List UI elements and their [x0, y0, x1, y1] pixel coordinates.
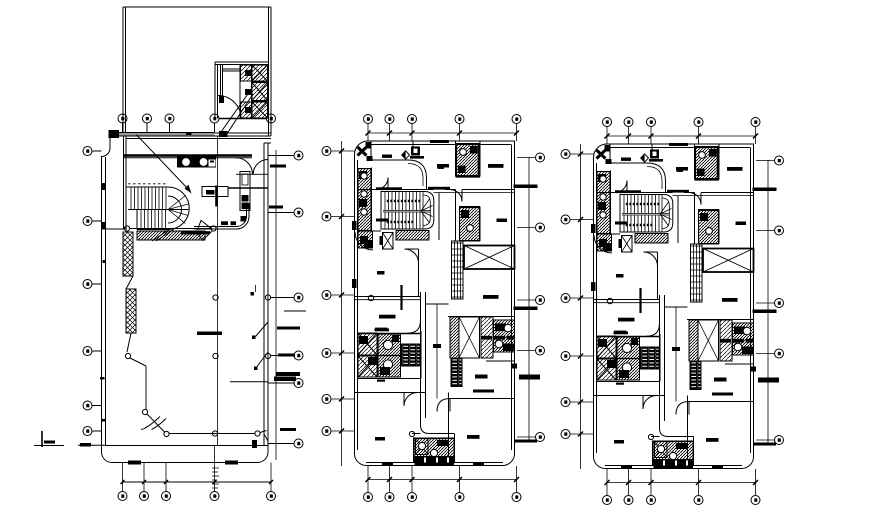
stair lower flight left wall [136, 210, 138, 230]
window band jog [126, 276, 133, 289]
upper extension right wall [269, 7, 272, 136]
entrance line left [78, 444, 106, 446]
site benchmark dash [44, 441, 55, 444]
wire drop diagonal [130, 358, 146, 366]
grid bubble T2 [143, 114, 152, 133]
grid bubble B1 [118, 492, 127, 501]
duct lower fill [241, 216, 247, 222]
right stem R5 [268, 382, 294, 384]
grid bubble L4 [83, 347, 102, 356]
right stem R2 [268, 212, 294, 214]
dim extension right mid [284, 310, 306, 312]
bottom stem B1 [122, 463, 124, 492]
heavy tick R row2 [269, 206, 283, 209]
door swing arc DA2 [253, 160, 268, 175]
switch symbol [141, 417, 166, 430]
right wall junction circle [265, 295, 270, 300]
socket leader 2 [257, 352, 268, 367]
shaft lobby hatch lower [241, 102, 252, 118]
wire run bottom [169, 433, 255, 435]
door swing arc DA1 [236, 158, 253, 175]
grid bubble L1 [83, 147, 102, 156]
main outer boundary [102, 136, 269, 463]
junction circle W3 [125, 353, 130, 358]
grid bubble B5 [267, 492, 276, 501]
stair inner cap arc [168, 196, 182, 223]
middle plan (first floor) [322, 115, 545, 502]
top wall double line right part [215, 133, 272, 136]
elevator shaft divider wall [240, 65, 268, 119]
duct fill 2 [242, 203, 249, 210]
kitchen sink bowl 2 [200, 159, 207, 166]
feeder leader line [137, 135, 190, 191]
door sill line [236, 173, 268, 175]
junction circle W1 [124, 226, 129, 231]
site benchmark line [34, 445, 64, 447]
kitchen hob white box [209, 160, 216, 167]
grid bubble T4 [210, 114, 219, 132]
kitchen wall lower line [124, 157, 252, 159]
distribution board fill [206, 190, 215, 195]
elevator door panel D1 [245, 70, 252, 76]
heavy tick right lower [274, 377, 296, 382]
duct fill 1 [242, 195, 249, 202]
corridor socket a [221, 221, 228, 225]
stair dashed soffit line [128, 183, 166, 185]
kitchen sink bowl 1 [183, 159, 190, 166]
riser bar [215, 186, 218, 207]
wire diagonal to W5 [147, 414, 165, 432]
left corridor wall stub [102, 228, 128, 230]
elevator shaft outer wall [215, 62, 269, 119]
bow-tie heavy bar [181, 231, 210, 234]
duct shaft upper inner [242, 174, 248, 185]
right wall inner line [263, 143, 265, 446]
heavy tick R row6 [280, 428, 296, 431]
wall socket square S1 [251, 292, 255, 296]
bottom dim line [123, 481, 272, 483]
shaft lobby hatch [241, 65, 252, 81]
shaft bottom edge [219, 118, 267, 120]
heavy tick right mid [277, 327, 300, 330]
wall tick L5 [102, 222, 106, 229]
bottom stem B2 [143, 463, 145, 492]
stair mid rail [128, 209, 189, 211]
entrance heavy dash [80, 443, 91, 447]
wire junction circles mid [213, 295, 218, 300]
bottom lintel tick b [225, 461, 238, 465]
bottom stem B4 [214, 446, 216, 492]
closet wall [230, 381, 268, 383]
wire run under stair [130, 228, 212, 230]
junction circle W6 [212, 431, 217, 436]
kitchen hob mark [210, 161, 214, 163]
right plan (second floor) [561, 118, 784, 505]
wall tick L3 [103, 260, 107, 263]
wall end diagonal [127, 333, 131, 352]
junction circle W2 [211, 226, 216, 231]
feeder arrowhead [185, 185, 192, 194]
corridor wall horizontal [194, 203, 249, 229]
wire vertical [145, 366, 147, 410]
right dim line vertical [275, 150, 277, 460]
grid bubble L2 [83, 217, 102, 226]
wall socket square S2 [252, 336, 256, 340]
grid bubble R6 [294, 439, 303, 448]
distribution board box [202, 187, 228, 197]
grid bubble R2 [294, 208, 303, 217]
socket drop line [255, 285, 257, 292]
grid bubble L3 [83, 280, 102, 289]
junction circle W5 [164, 431, 169, 436]
right stem R3 [271, 297, 295, 299]
junction box JB1 [109, 130, 120, 138]
stair treads lower flight [141, 210, 166, 230]
bottom stem B5 [270, 463, 272, 492]
stair label text marks [212, 468, 219, 488]
upper extension left wall [123, 7, 126, 136]
stair enclosure top [126, 186, 168, 188]
stair outer cap arc [168, 187, 189, 230]
bow-tie damper upper triangle [198, 220, 211, 229]
grid bubble L5 [83, 401, 102, 410]
right stem R6 [268, 443, 294, 445]
outlet flag bottom right [252, 440, 257, 448]
top heavy wall band [110, 132, 215, 136]
grid bubble T1 [118, 114, 127, 133]
elevator car E1 [252, 65, 268, 81]
kitchen counter [177, 157, 216, 168]
wire end tick [260, 431, 268, 442]
stair treads upper flight [131, 187, 166, 210]
elevator door panel D2 [245, 89, 252, 95]
grid bubble B3 [162, 492, 171, 501]
right wall top connector [264, 142, 271, 144]
window band 1 outline [123, 232, 133, 276]
machine room wall [221, 65, 241, 97]
stair enclosure bottom [137, 229, 168, 231]
grid bubble R1 [294, 151, 303, 160]
shaft door swing arc [218, 96, 241, 119]
junction circle W4 [142, 409, 147, 414]
shaft access ramp [221, 91, 253, 135]
heavy tick R row4b [278, 354, 295, 357]
grid bubble B4 [210, 492, 219, 501]
bottom stem B3 [165, 463, 167, 492]
elevator car E2 [252, 83, 268, 101]
grid line A [217, 136, 219, 446]
wall tick L4 [102, 183, 106, 190]
elevator door panel D3 [245, 107, 252, 113]
window hatch band 1 [123, 232, 133, 276]
machine room cabinet [219, 96, 224, 103]
under-stair band outline [137, 231, 205, 240]
upper extension roof edge [123, 6, 271, 8]
wire junction mid 2 [213, 353, 218, 358]
grid bubble T5 [267, 114, 276, 123]
grid bubble R4 [294, 351, 303, 360]
kitchen wall heavy [124, 154, 252, 156]
bottom wall inner line [106, 445, 269, 447]
wall tick L2 [101, 419, 106, 422]
right wall junction circle 2 [265, 353, 270, 358]
grid bubble L6 [83, 427, 102, 436]
grid bubble B2 [140, 492, 149, 501]
heavy tick R row1 [270, 165, 286, 168]
right stem R4 [271, 355, 295, 357]
junction circle W7 [255, 431, 260, 436]
grid bubble T3 [165, 114, 174, 133]
junction box JB2 [219, 131, 228, 137]
grid bubble R5 [294, 379, 303, 388]
board feed wire [228, 187, 268, 189]
under-stair hatch band [137, 231, 205, 240]
right stem R1 [268, 155, 294, 157]
stair left wall [124, 136, 127, 229]
bottom dim ticks [121, 480, 274, 484]
stair winder fan [168, 196, 188, 224]
conduit tick [186, 132, 192, 135]
heavy tick left of grid [197, 332, 222, 336]
corridor socket b [231, 221, 237, 225]
left wall inner line [105, 157, 107, 446]
stair break line [152, 229, 174, 241]
duct shaft [240, 188, 250, 211]
bow-tie damper lower triangle [198, 232, 211, 241]
socket leader 1 [256, 322, 269, 337]
window hatch band 2 [126, 289, 136, 333]
wall socket square S3 [254, 367, 258, 371]
grid bubble R3 [294, 293, 303, 302]
duct shaft upper [240, 172, 250, 189]
heavy tick R row5 [276, 372, 300, 376]
elevator car E3 [252, 102, 268, 118]
top wall lower line [126, 138, 271, 140]
site benchmark vertical [41, 431, 43, 447]
bottom lintel tick a [128, 461, 141, 465]
wall tick L1 [100, 377, 105, 380]
window band 2 outline [126, 289, 136, 333]
